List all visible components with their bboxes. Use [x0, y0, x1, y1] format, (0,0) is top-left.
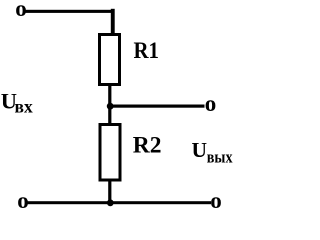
wire: top horizontal — [26, 10, 115, 13]
wire: R1 bottom to mid node — [108, 84, 111, 108]
svg-text:вых: вых — [207, 148, 233, 167]
wire: top vertical drop into R1 — [111, 9, 115, 34]
svg-text:o: o — [210, 188, 222, 209]
node: bottom junction dot — [107, 199, 114, 206]
svg-text:o: o — [15, 0, 27, 21]
svg-text:o: o — [205, 91, 217, 116]
svg-text:R1: R1 — [134, 38, 160, 64]
svg-text:U: U — [192, 138, 208, 162]
resistor R2 — [100, 125, 120, 181]
svg-text:вх: вх — [15, 97, 33, 117]
resistor R1 — [100, 35, 120, 85]
svg-text:o: o — [17, 188, 29, 209]
wire: R2 bottom to bottom node — [108, 180, 111, 203]
node: mid junction dot — [107, 103, 114, 110]
svg-text:R2: R2 — [133, 133, 162, 159]
wire: bottom horizontal — [27, 201, 211, 204]
wire: mid horizontal to output — [110, 105, 205, 108]
wire: mid node to R2 top — [108, 106, 111, 125]
